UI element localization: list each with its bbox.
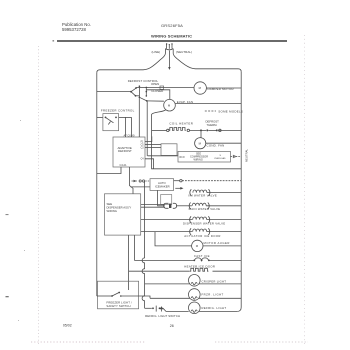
svg-text:26: 26 xyxy=(170,324,174,328)
svg-text:RCO: RCO xyxy=(180,157,185,159)
svg-text:FAST ICE: FAST ICE xyxy=(194,254,210,258)
svg-text:M: M xyxy=(196,244,199,248)
svg-text:(LINE): (LINE) xyxy=(152,50,161,54)
svg-text:C5: C5 xyxy=(141,145,145,147)
svg-text:OVERLOAD: OVERLOAD xyxy=(214,157,226,160)
svg-text:M: M xyxy=(199,86,202,90)
svg-text:I/M WATER VALVE: I/M WATER VALVE xyxy=(188,193,217,197)
svg-text:C4: C4 xyxy=(141,159,145,161)
svg-text:WIRING: WIRING xyxy=(194,158,203,161)
svg-text:S: S xyxy=(220,155,222,157)
svg-text:OPEN: OPEN xyxy=(151,82,159,86)
svg-text:SOME MODELS: SOME MODELS xyxy=(218,109,243,113)
svg-text:GRS26F5A: GRS26F5A xyxy=(161,23,183,28)
svg-text:MOTOR AUGER: MOTOR AUGER xyxy=(204,241,230,245)
svg-text:WIRING: WIRING xyxy=(107,209,117,213)
svg-text:DEFROST: DEFROST xyxy=(118,149,132,153)
svg-text:WIRING SCHEMATIC: WIRING SCHEMATIC xyxy=(151,33,192,38)
svg-text:CRISPER LIGHT: CRISPER LIGHT xyxy=(202,280,227,284)
svg-text:C4 A1: C4 A1 xyxy=(120,163,128,167)
svg-text:DISPENSER WATER VALVE: DISPENSER WATER VALVE xyxy=(183,221,225,225)
svg-text:REFRIG. LIGHT: REFRIG. LIGHT xyxy=(202,306,227,310)
svg-text:M: M xyxy=(168,103,171,107)
svg-text:EVAP. FAN: EVAP. FAN xyxy=(177,100,194,104)
svg-text:(NEUTRAL): (NEUTRAL) xyxy=(176,50,192,54)
svg-text:05/02: 05/02 xyxy=(63,323,72,327)
svg-text:COIL HEATER: COIL HEATER xyxy=(169,121,193,125)
svg-text:FRZR. LIGHT: FRZR. LIGHT xyxy=(202,293,224,297)
svg-text:SAFETY SWITCH: SAFETY SWITCH xyxy=(106,304,130,308)
svg-text:C3: C3 xyxy=(141,148,145,150)
svg-text:MAIN WATER VALVE: MAIN WATER VALVE xyxy=(189,207,221,211)
svg-text:THERM.: THERM. xyxy=(207,123,218,127)
svg-text:M: M xyxy=(199,141,202,145)
svg-text:FREEZER CONTROL: FREEZER CONTROL xyxy=(101,109,135,113)
svg-text:HEATER ICE DOOR: HEATER ICE DOOR xyxy=(184,264,215,268)
svg-text:ACTUATOR ICE DOOR: ACTUATOR ICE DOOR xyxy=(184,234,221,238)
svg-text:NEUTRAL: NEUTRAL xyxy=(245,149,249,162)
svg-text:COND. FAN: COND. FAN xyxy=(207,144,225,148)
svg-text:ICEMAKER: ICEMAKER xyxy=(155,185,170,189)
svg-text:F1: F1 xyxy=(141,142,144,144)
svg-text:REFRIG. LIGHT SWITCH: REFRIG. LIGHT SWITCH xyxy=(145,314,180,318)
svg-text:DAMPER MOTOR: DAMPER MOTOR xyxy=(208,87,234,91)
svg-text:5995372728: 5995372728 xyxy=(62,27,87,32)
